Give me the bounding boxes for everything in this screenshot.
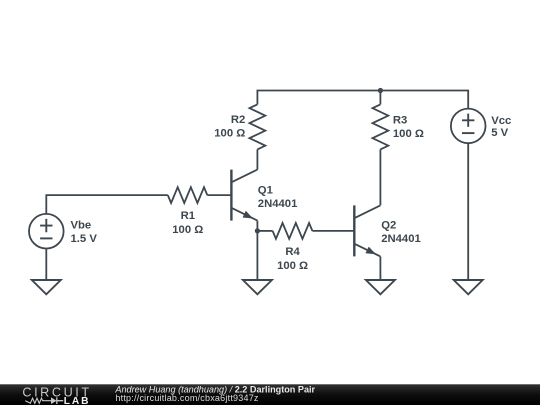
ground under Q2 emitter	[366, 280, 395, 294]
svg-text:2N4401: 2N4401	[381, 233, 421, 245]
svg-text:100 Ω: 100 Ω	[214, 128, 245, 140]
svg-text:100 Ω: 100 Ω	[277, 260, 308, 272]
resistor R2	[250, 104, 266, 149]
label Vbe 1.5 V	[71, 219, 98, 244]
svg-text:R2: R2	[231, 114, 245, 126]
wire top supply rail with stubs to R2, R3, Vcc	[257, 91, 468, 109]
wire R3 bottom to Q2 collector	[379, 149, 381, 205]
svg-text:2N4401: 2N4401	[258, 198, 298, 210]
svg-text:100 Ω: 100 Ω	[393, 128, 424, 140]
footer attribution line 1	[114, 384, 315, 394]
voltage source Vbe 1.5 V	[29, 214, 64, 249]
footer black bar	[0, 384, 540, 405]
svg-text:http://circuitlab.com/cbxa6jtt: http://circuitlab.com/cbxa6jtt9347z	[115, 393, 259, 403]
svg-text:R3: R3	[393, 115, 407, 127]
wire Q1 emitter down to ground	[256, 221, 258, 280]
svg-text:Vbe: Vbe	[71, 219, 92, 231]
wire R1 to Q1 base	[207, 194, 231, 196]
ground under Vbe	[32, 280, 61, 294]
wire Q2 emitter to ground	[379, 256, 381, 280]
wire Vbe top to R1	[46, 195, 168, 214]
resistor R1	[168, 187, 208, 203]
label R3 100 Ω	[393, 115, 424, 140]
CircuitLab logo CIRCUIT text	[22, 386, 91, 400]
transistor Q2 2N4401 NPN	[354, 205, 380, 256]
svg-text:Vcc: Vcc	[491, 115, 511, 127]
resistor R3	[373, 104, 389, 149]
voltage source Vcc 5 V	[451, 109, 486, 144]
node junction Q1 emitter and R4	[255, 228, 260, 233]
transistor Q1 2N4401 NPN	[231, 170, 257, 221]
svg-text:R4: R4	[285, 246, 300, 258]
svg-text:LAB: LAB	[64, 396, 91, 405]
svg-text:5 V: 5 V	[491, 127, 508, 139]
ground under Q1 emitter	[243, 280, 272, 294]
label Q1 2N4401	[258, 185, 298, 211]
label R1 100 Ω	[172, 210, 203, 236]
ground under Vcc	[454, 280, 483, 294]
footer url line 2	[115, 393, 259, 403]
label R4 100 Ω	[277, 246, 308, 272]
svg-text:Q1: Q1	[258, 185, 273, 197]
wire node to R4	[257, 230, 272, 232]
resistor R4	[273, 223, 313, 239]
CircuitLab logo resistor squiggle	[25, 398, 51, 403]
node junction of rail and R3	[378, 88, 383, 93]
wire R2 bottom to Q1 collector	[256, 149, 258, 169]
wire Vbe bottom to ground	[45, 249, 47, 281]
svg-text:Q2: Q2	[381, 219, 396, 231]
svg-text:1.5 V: 1.5 V	[71, 233, 98, 245]
wire Vcc bottom to ground	[467, 143, 469, 280]
label Vcc 5 V	[491, 115, 511, 139]
label R2 100 Ω	[214, 114, 245, 139]
label Q2 2N4401	[381, 219, 421, 244]
svg-text:R1: R1	[181, 210, 195, 222]
CircuitLab logo LAB text	[64, 396, 91, 405]
svg-text:100 Ω: 100 Ω	[172, 224, 203, 236]
wire R4 to Q2 base	[312, 230, 354, 232]
CircuitLab logo diode symbol	[51, 397, 63, 404]
